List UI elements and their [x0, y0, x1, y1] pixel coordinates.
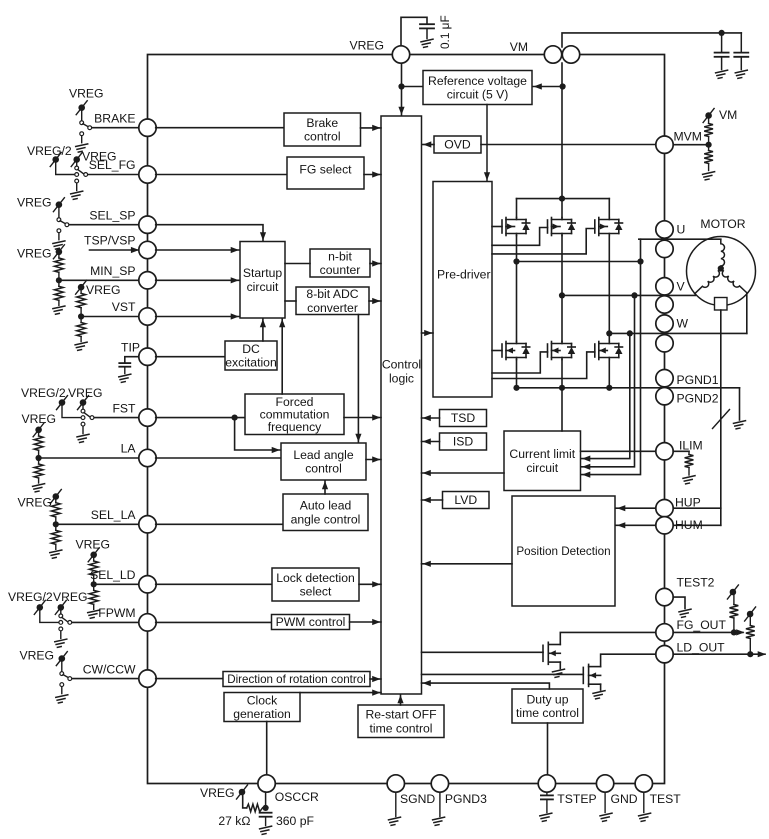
- svg-text:SEL_FG: SEL_FG: [89, 158, 136, 172]
- svg-text:VREG: VREG: [17, 247, 52, 261]
- svg-text:angle control: angle control: [291, 512, 361, 526]
- pin OSCCR: [258, 775, 275, 792]
- svg-text:VREG/2: VREG/2: [21, 386, 66, 400]
- svg-text:U: U: [677, 223, 686, 237]
- block Pre-driver: [433, 182, 492, 398]
- wire LD gate: [422, 673, 584, 675]
- svg-text:8-bit ADC: 8-bit ADC: [306, 287, 358, 301]
- switch blade: [84, 413, 90, 417]
- resistor LD pull-up: [746, 626, 755, 639]
- ground divider: [50, 550, 62, 558]
- pin LD_OUT: [656, 646, 673, 663]
- block LVD: [443, 492, 490, 509]
- svg-text:generation: generation: [233, 707, 291, 721]
- wire n-bit counter to control logic: [370, 263, 381, 265]
- node divider: [36, 455, 42, 461]
- svg-text:Duty up: Duty up: [526, 692, 568, 706]
- wire V phase tap: [559, 292, 565, 298]
- transistor Q2 high-side V: [548, 218, 576, 236]
- ground divider: [75, 342, 87, 350]
- wire TSP/VSP input arrow: [90, 249, 139, 251]
- wire FST branch to Lead angle control: [235, 418, 280, 450]
- switch blade: [83, 124, 89, 127]
- wire hall sensor down: [720, 310, 722, 525]
- power VREG switch: [33, 423, 44, 437]
- svg-text:Auto lead: Auto lead: [300, 499, 352, 513]
- wire Q2 drain: [561, 199, 563, 218]
- pin FPWM: [139, 614, 156, 631]
- pin VST: [139, 308, 156, 325]
- pin U: [656, 221, 673, 238]
- IC boundary: [148, 55, 665, 784]
- pin PGND2: [656, 388, 673, 405]
- block OVD: [434, 136, 481, 153]
- wire control logic to pre-driver: [422, 332, 434, 334]
- svg-text:logic: logic: [389, 372, 414, 386]
- svg-text:Startup: Startup: [243, 266, 283, 280]
- switch contact GND: [59, 627, 63, 631]
- wire Brake control to control logic: [361, 127, 382, 129]
- ground VM cap 2: [735, 70, 747, 78]
- switch common: [65, 223, 69, 227]
- wire PWM control to control logic: [350, 621, 382, 623]
- ground switch: [71, 191, 83, 199]
- wire FPWM: [70, 621, 148, 623]
- wire ILIM external: [673, 450, 689, 452]
- capacitor VM 1: [721, 33, 723, 53]
- ground switch: [55, 639, 67, 647]
- wire W phase column: [608, 236, 610, 342]
- pin VM 2: [562, 46, 579, 63]
- pin V2: [656, 296, 673, 313]
- svg-text:HUP: HUP: [675, 496, 701, 510]
- svg-text:PGND1: PGND1: [677, 373, 719, 387]
- wire Re-start to control logic: [400, 695, 402, 705]
- hall sensor: [715, 298, 728, 311]
- svg-text:GND: GND: [611, 792, 638, 806]
- svg-text:Position Detection: Position Detection: [516, 545, 610, 558]
- resistor FG pull-up: [730, 605, 739, 619]
- wire CW/CCW to Direction of rotation control: [156, 678, 223, 680]
- node divider: [91, 581, 97, 587]
- block FG select: [287, 157, 364, 189]
- resistor lower: [58, 280, 60, 286]
- switch contact upper: [60, 672, 64, 676]
- svg-text:FG_OUT: FG_OUT: [677, 618, 727, 632]
- wire GND ground: [604, 792, 606, 812]
- wire Auto lead to Lead angle control: [324, 481, 326, 494]
- pin PGND3: [431, 775, 448, 792]
- power VREG switch: [76, 101, 87, 115]
- block Auto lead angle control: [283, 494, 368, 531]
- capacitor TSTEP: [546, 792, 548, 795]
- power VREG switch: [50, 490, 61, 504]
- power VREG switch: [56, 652, 67, 666]
- wire OVD to MVM: [481, 144, 656, 146]
- wire SGND ground: [395, 792, 397, 816]
- pin SEL_LD: [139, 576, 156, 593]
- ground TEST: [639, 813, 651, 821]
- power VREG switch: [55, 600, 66, 614]
- svg-text:MIN_SP: MIN_SP: [90, 264, 135, 278]
- wire ISD to control logic: [422, 441, 440, 443]
- block Forced commutation frequency: [245, 394, 344, 435]
- svg-text:Clock: Clock: [247, 694, 278, 708]
- wire W phase tap: [606, 330, 612, 336]
- pin HUP: [656, 500, 673, 517]
- switch contact lower: [57, 229, 61, 233]
- svg-text:BRAKE: BRAKE: [94, 111, 135, 125]
- motor M1: [687, 237, 756, 306]
- wire VST: [81, 316, 147, 318]
- wire PGND external ground: [739, 388, 741, 420]
- pin MVM: [656, 136, 673, 153]
- ground TIP: [119, 374, 131, 382]
- svg-text:n-bit: n-bit: [328, 249, 352, 263]
- wire Q3 drain: [608, 199, 610, 218]
- switch blade: [62, 617, 68, 621]
- resistor ILIM: [688, 451, 690, 454]
- pin SEL_FG: [139, 166, 156, 183]
- svg-text:VREG: VREG: [76, 538, 111, 552]
- ground switch: [77, 434, 89, 442]
- svg-text:CW/CCW: CW/CCW: [83, 662, 136, 676]
- transistor Q4 low-side U: [502, 342, 530, 360]
- resistor MVM upper: [704, 124, 713, 137]
- wire ADC to Lead angle control: [357, 315, 359, 443]
- wire U phase column: [516, 236, 518, 342]
- svg-text:FPWM: FPWM: [98, 606, 135, 620]
- svg-text:MVM: MVM: [674, 130, 702, 144]
- wire VREG bypass: [401, 17, 427, 46]
- wire CW/CCW: [70, 678, 148, 680]
- resistor lower: [55, 524, 57, 530]
- ground ILIM: [683, 476, 695, 484]
- svg-text:VREG: VREG: [18, 496, 53, 510]
- pin VREG: [392, 46, 409, 63]
- switch contact VREG/2: [59, 621, 63, 625]
- resistor upper: [55, 258, 64, 272]
- wire OSCCR external: [243, 795, 247, 808]
- svg-text:360 pF: 360 pF: [276, 814, 314, 828]
- wire FG_OUT external: [673, 631, 743, 633]
- transistor Q5 low-side V: [548, 342, 576, 360]
- ground LD fet: [593, 691, 605, 699]
- ground 0.1uF: [421, 39, 433, 47]
- wire Position Detection to control logic: [422, 563, 513, 565]
- pin W2: [656, 335, 673, 352]
- pin SEL_SP: [139, 216, 156, 233]
- wire HUM external: [665, 524, 721, 526]
- svg-text:Lock detection: Lock detection: [276, 571, 355, 585]
- switch common: [68, 677, 72, 681]
- wire Duty up to control logic: [422, 683, 550, 689]
- pin V: [656, 278, 673, 295]
- wire SEL_LD to Lock detection select: [156, 583, 272, 585]
- svg-text:circuit: circuit: [526, 461, 558, 475]
- svg-text:SEL_LD: SEL_LD: [90, 568, 136, 582]
- wire HUM to position detection: [616, 524, 665, 526]
- pin TSP/VSP: [139, 241, 156, 258]
- svg-text:PWM control: PWM control: [276, 615, 346, 629]
- power VREG switch: [78, 396, 89, 410]
- switch contact VREG: [75, 166, 79, 170]
- switch blade: [63, 675, 69, 678]
- resistor lower: [93, 584, 95, 590]
- block DC excitation: [225, 341, 277, 370]
- switch contact upper: [80, 121, 84, 125]
- svg-text:VREG/2: VREG/2: [8, 590, 53, 604]
- wire Duty up to TSTEP: [547, 723, 549, 775]
- wire VM down to bridge: [561, 63, 563, 199]
- wire LVD to control logic: [422, 499, 443, 501]
- ground TEST2: [679, 609, 691, 617]
- svg-text:SEL_SP: SEL_SP: [89, 208, 135, 222]
- svg-text:PGND3: PGND3: [445, 792, 487, 806]
- svg-text:VREG: VREG: [200, 786, 235, 800]
- wire LD drain to LD_OUT: [601, 654, 665, 666]
- pin W: [656, 315, 673, 332]
- power VREG/2 switch: [50, 153, 61, 167]
- wire LA to Lead angle control: [156, 457, 281, 459]
- wire FST to Forced commutation frequency: [156, 417, 245, 419]
- wire BRAKE to Brake control: [156, 127, 284, 129]
- pin CW/CCW: [139, 670, 156, 687]
- svg-text:FST: FST: [112, 401, 136, 415]
- svg-text:time control: time control: [516, 706, 579, 720]
- wire Q3 gate: [492, 229, 595, 254]
- wire U phase tap: [582, 239, 641, 474]
- wire Startup to ADC: [285, 300, 296, 302]
- pin HUM: [656, 517, 673, 534]
- capacitor TIP: [119, 363, 130, 367]
- resistor upper: [77, 293, 86, 307]
- svg-text:PGND2: PGND2: [677, 392, 719, 406]
- svg-text:TSTEP: TSTEP: [557, 792, 596, 806]
- block Control logic U1: [381, 116, 422, 694]
- pin VM 1: [544, 46, 561, 63]
- wire TIP to DC excitation: [156, 356, 225, 358]
- transistor Q8 LD output: [583, 664, 600, 686]
- ground VM cap 1: [716, 70, 728, 78]
- wire SEL_SP to Startup circuit: [156, 225, 263, 241]
- wire Q2 gate: [492, 228, 548, 246]
- svg-text:Pre-driver: Pre-driver: [437, 268, 491, 282]
- svg-text:TSD: TSD: [451, 411, 476, 425]
- svg-text:counter: counter: [320, 263, 361, 277]
- svg-text:W: W: [677, 317, 689, 331]
- svg-text:MOTOR: MOTOR: [700, 217, 745, 231]
- wire Clock generation to control logic: [300, 692, 381, 694]
- pin U2: [656, 240, 673, 257]
- wire PGND3 ground: [439, 792, 441, 816]
- svg-text:Re-start OFF: Re-start OFF: [365, 708, 436, 722]
- svg-text:VREG: VREG: [22, 412, 57, 426]
- wire SEL_SP: [67, 224, 148, 226]
- switch contact lower: [60, 683, 64, 687]
- resistor upper: [34, 436, 43, 450]
- wire PGND bus: [516, 360, 518, 388]
- svg-text:TIP: TIP: [121, 340, 140, 354]
- wire V phase column: [561, 236, 563, 342]
- wire SEL_LA to Auto lead angle control: [156, 523, 283, 525]
- ground divider: [53, 306, 65, 314]
- wire Lead angle control to control logic: [366, 459, 381, 461]
- power VM switch MVM: [703, 109, 714, 123]
- wire LD_OUT external: [673, 653, 765, 655]
- node divider: [56, 277, 62, 283]
- svg-text:Brake: Brake: [306, 116, 338, 130]
- wire U bus: [517, 261, 641, 263]
- wire ADC to control logic: [369, 300, 381, 302]
- block Position Detection: [512, 496, 615, 606]
- pin TEST2: [656, 588, 673, 605]
- svg-text:V: V: [677, 280, 686, 294]
- svg-text:TEST: TEST: [650, 792, 682, 806]
- block Direction of rotation control: [223, 672, 370, 687]
- resistor upper: [89, 561, 98, 575]
- resistor OSCCR 27k: [247, 804, 263, 812]
- wire TSD to control logic: [422, 417, 440, 419]
- wire W sense line: [582, 333, 630, 458]
- block Re-start OFF time control: [358, 705, 444, 738]
- pin LA: [139, 449, 156, 466]
- wire Q4 gate: [492, 350, 502, 352]
- wire W phase to motor coil: [746, 293, 748, 333]
- wire V sense line: [582, 295, 635, 466]
- wire FG drain to FG_OUT: [560, 632, 664, 644]
- svg-text:control: control: [304, 130, 341, 144]
- svg-text:VREG: VREG: [53, 590, 88, 604]
- svg-text:LD_OUT: LD_OUT: [677, 641, 726, 655]
- wire FST: [92, 417, 148, 419]
- block Duty up time control: [512, 689, 583, 723]
- ground switch: [76, 144, 88, 152]
- power VREG/2 switch: [34, 600, 45, 614]
- switch contact VREG/2: [81, 416, 85, 420]
- block Clock generation: [224, 693, 300, 722]
- slash hall bundle: [713, 410, 730, 429]
- node divider: [53, 521, 59, 527]
- wire OVD to control logic: [422, 144, 435, 146]
- wire Clock generation to OSCCR: [266, 722, 268, 776]
- svg-text:VREG: VREG: [349, 39, 384, 53]
- wire Forced commutation to Startup: [281, 319, 283, 394]
- switch contact upper: [57, 218, 61, 222]
- wire SEL_LA: [56, 523, 148, 525]
- node FST branch: [232, 415, 238, 421]
- wire FG select to control logic: [364, 174, 381, 176]
- svg-text:SGND: SGND: [400, 792, 435, 806]
- wire FPWM to PWM control: [156, 621, 272, 623]
- svg-text:ISD: ISD: [453, 435, 474, 449]
- ground OSCCR: [260, 826, 272, 834]
- wire VM rail top: [562, 33, 741, 47]
- pin FST: [139, 409, 156, 426]
- ground SGND: [389, 817, 401, 825]
- pin TIP: [139, 348, 156, 365]
- wire MIN_SP: [59, 279, 148, 281]
- wire Q6 gate: [492, 352, 595, 379]
- block Lock detection select: [272, 568, 359, 601]
- wire HUP external: [665, 507, 721, 509]
- wire Direction control to control logic: [370, 678, 381, 680]
- block TSD: [440, 410, 487, 427]
- power VREG switch: [53, 245, 64, 259]
- svg-text:converter: converter: [307, 301, 358, 315]
- transistor Q7 FG output: [543, 642, 560, 664]
- block PWM control: [272, 615, 350, 630]
- pin FG_OUT: [656, 624, 673, 641]
- switch blade: [60, 221, 66, 224]
- node divider: [78, 313, 84, 319]
- ground TSTEP: [540, 813, 552, 821]
- svg-text:Direction of rotation control: Direction of rotation control: [227, 673, 366, 686]
- block 8-bit ADC converter: [296, 287, 369, 315]
- wire SEL_FG: [86, 174, 148, 176]
- switch contact GND: [75, 179, 79, 183]
- wire Forced commutation to control logic: [344, 417, 381, 419]
- switch common: [88, 126, 92, 130]
- switch contact VREG/2: [75, 173, 79, 177]
- svg-text:control: control: [305, 462, 342, 476]
- ground PGND3: [433, 817, 445, 825]
- wire VST to Startup circuit: [156, 316, 239, 318]
- svg-text:Control: Control: [382, 358, 421, 372]
- power VREG switch: [71, 153, 82, 167]
- wire TEST ground: [643, 792, 645, 812]
- wire bridge drain rail: [517, 198, 610, 200]
- resistor MVM lower: [708, 145, 710, 151]
- svg-text:27 kΩ: 27 kΩ: [218, 814, 250, 828]
- svg-text:VREG: VREG: [20, 649, 55, 663]
- svg-text:HUM: HUM: [675, 518, 703, 532]
- power VREG/2 switch: [57, 396, 68, 410]
- svg-text:frequency: frequency: [268, 420, 322, 434]
- wire HUP to position detection: [616, 507, 665, 509]
- capacitor OSCCR 360pF: [260, 813, 272, 817]
- ground MVM: [703, 172, 715, 180]
- svg-text:TEST2: TEST2: [677, 576, 715, 590]
- wire SEL_LD: [94, 583, 148, 585]
- ground PGND: [734, 421, 746, 429]
- block Current limit circuit: [504, 431, 581, 491]
- ground switch: [56, 695, 68, 703]
- pin GND: [596, 775, 613, 792]
- wire LD source ground: [600, 684, 602, 690]
- switch common: [84, 173, 88, 177]
- svg-text:VREG: VREG: [86, 283, 121, 297]
- transistor Q3 high-side W: [595, 218, 623, 236]
- block Reference voltage circuit: [423, 71, 532, 105]
- resistor upper: [51, 503, 60, 517]
- pin SEL_LA: [139, 516, 156, 533]
- svg-text:VREG: VREG: [68, 386, 103, 400]
- power VREG switch: [88, 548, 99, 562]
- svg-text:VREG: VREG: [17, 196, 52, 210]
- svg-text:circuit (5 V): circuit (5 V): [447, 88, 509, 102]
- power switch FG pull-up: [727, 585, 738, 599]
- power VREG switch: [76, 280, 87, 294]
- ground FG fet: [553, 669, 565, 677]
- wire LA: [39, 457, 148, 459]
- svg-text:select: select: [300, 585, 332, 599]
- svg-text:SEL_LA: SEL_LA: [91, 508, 137, 522]
- svg-text:Lead angle: Lead angle: [293, 448, 354, 462]
- transistor Q6 low-side W: [595, 342, 623, 360]
- block Startup circuit: [240, 242, 285, 319]
- svg-text:VREG/2: VREG/2: [27, 144, 72, 158]
